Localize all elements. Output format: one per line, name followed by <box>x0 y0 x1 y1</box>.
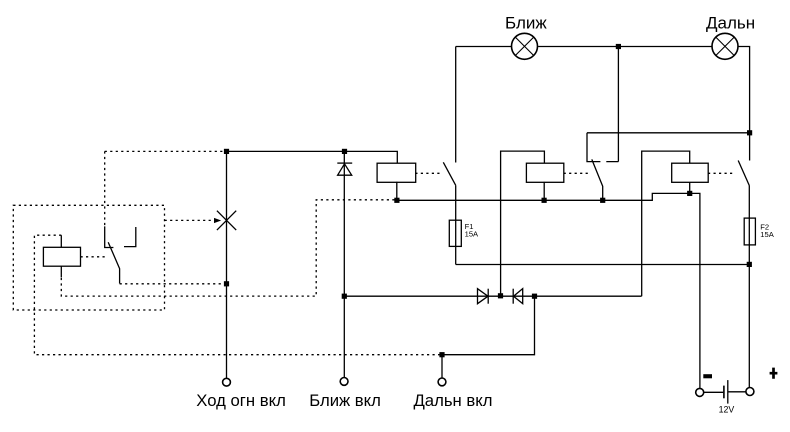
lamp Дальн (high beam) <box>712 33 738 59</box>
node K3 pin on step wire <box>687 191 692 196</box>
label minus <box>703 374 712 378</box>
node rail at low-beam line <box>342 149 347 154</box>
battery right wire end circle (plus) <box>746 388 754 396</box>
adjust cross X <box>217 211 236 230</box>
wire mid rail y=133 <box>587 132 750 134</box>
svg-text:Дальн вкл: Дальн вкл <box>414 391 493 410</box>
wire switch2 right contact from lamps junction <box>606 47 618 162</box>
node on right vertical at mid rail <box>747 130 752 135</box>
node blade-L dashed tap <box>224 281 229 286</box>
fuse F2 <box>744 218 755 245</box>
node junction between lamps <box>616 44 621 49</box>
dashed blade-L to running-light line <box>120 283 224 285</box>
wire rail2 solid with step up to battery minus <box>397 193 700 388</box>
switch S2 blade <box>592 159 603 200</box>
battery long plate (positive) <box>727 380 729 404</box>
dashed rail2 left part <box>61 200 394 296</box>
wire from diode row down to Дальн вкл terminal row <box>442 296 535 378</box>
relay K2 frame and coil top wire <box>501 151 545 296</box>
wire switch2 left contact <box>587 133 600 162</box>
wire K1 coil to rail2 <box>396 182 398 201</box>
node K1 pin on rail2 <box>394 198 399 203</box>
wire KL coil bottom pin <box>60 266 62 277</box>
arrowhead <box>214 218 221 223</box>
node S2 pivot on rail2 <box>600 198 605 203</box>
svg-text:Дальн: Дальн <box>706 14 755 33</box>
node diode row start <box>342 294 347 299</box>
relay K1 coil <box>377 163 416 182</box>
dashed control drop to switch-L <box>104 151 106 225</box>
wire KL coil top pin <box>60 235 62 247</box>
svg-text:Ход огн вкл: Ход огн вкл <box>196 391 286 410</box>
relay KL coil <box>43 247 80 266</box>
wire running-light line (Ход огн) <box>226 151 228 378</box>
wire top rail from low-beam lamp corner <box>456 46 512 48</box>
node rail at running-light line <box>224 149 229 154</box>
wire low-beam switch line (Ближ) <box>343 151 345 377</box>
diode D1 <box>478 289 489 304</box>
relay K2 coil <box>526 163 563 182</box>
terminal Ближ вкл <box>340 378 348 386</box>
relay K3 coil <box>672 163 709 182</box>
wire S1 pivot through fuse F1 down <box>455 185 457 264</box>
switch-L right contact <box>124 227 136 247</box>
wire K3 coil to step wire <box>689 182 691 193</box>
node diode row to high-beam switch line <box>532 294 537 299</box>
wire diode row <box>345 295 642 297</box>
node diode row at K2 frame <box>498 293 503 298</box>
battery wires to plates <box>704 391 746 394</box>
switch-L blade <box>108 242 119 283</box>
wire high-beam lamp to right corner down <box>738 47 750 161</box>
wire K2 coil to rail2 <box>543 182 545 200</box>
battery short plate (negative) <box>723 386 725 399</box>
wire switch1 fixed contact (from lamp corner) <box>455 47 457 163</box>
wire S3 pivot through fuse F2 to battery plus <box>748 186 750 388</box>
lamp Ближ (low beam) <box>512 33 538 59</box>
wire F1 to bottom bus <box>456 264 750 266</box>
node bus meets F2 wire <box>747 262 752 267</box>
dashed KL top pin to Дальн вкл tap <box>34 235 440 355</box>
dashed enclosure box left unit <box>13 205 164 310</box>
dashed link KL coil to switch-L <box>81 256 106 258</box>
diode D2 <box>513 289 523 304</box>
switch-L left contact <box>105 226 114 247</box>
relay K3 frame and coil top wire <box>642 151 690 296</box>
svg-text:Ближ: Ближ <box>505 14 547 33</box>
diode D3 <box>337 163 352 175</box>
dashed control line out of box with arrow <box>165 219 213 221</box>
wire rail to relay K1 top <box>227 151 398 163</box>
switch S1 blade <box>443 162 455 185</box>
svg-text:Ближ вкл: Ближ вкл <box>309 391 381 410</box>
label plus <box>770 368 778 379</box>
battery left wire end circle (minus) <box>696 388 704 396</box>
terminal Дальн вкл <box>438 378 446 386</box>
fuse F1 <box>449 220 461 246</box>
node K2 pin on rail2 <box>542 198 547 203</box>
terminal Ход огн вкл <box>223 378 231 386</box>
dashed link K2 to S2 <box>564 172 589 174</box>
wire between lamps <box>538 46 712 48</box>
svg-text:12V: 12V <box>719 405 735 415</box>
dashed link K1 to S1 <box>415 172 441 174</box>
node Дальн вкл tap <box>439 352 444 357</box>
switch S3 blade <box>738 161 749 186</box>
wire left top rail (dashed control to solid) <box>105 150 224 152</box>
dashed link K3 to S3 <box>708 172 735 174</box>
svg-text:15A: 15A <box>760 230 774 239</box>
svg-text:15A: 15A <box>465 229 479 238</box>
